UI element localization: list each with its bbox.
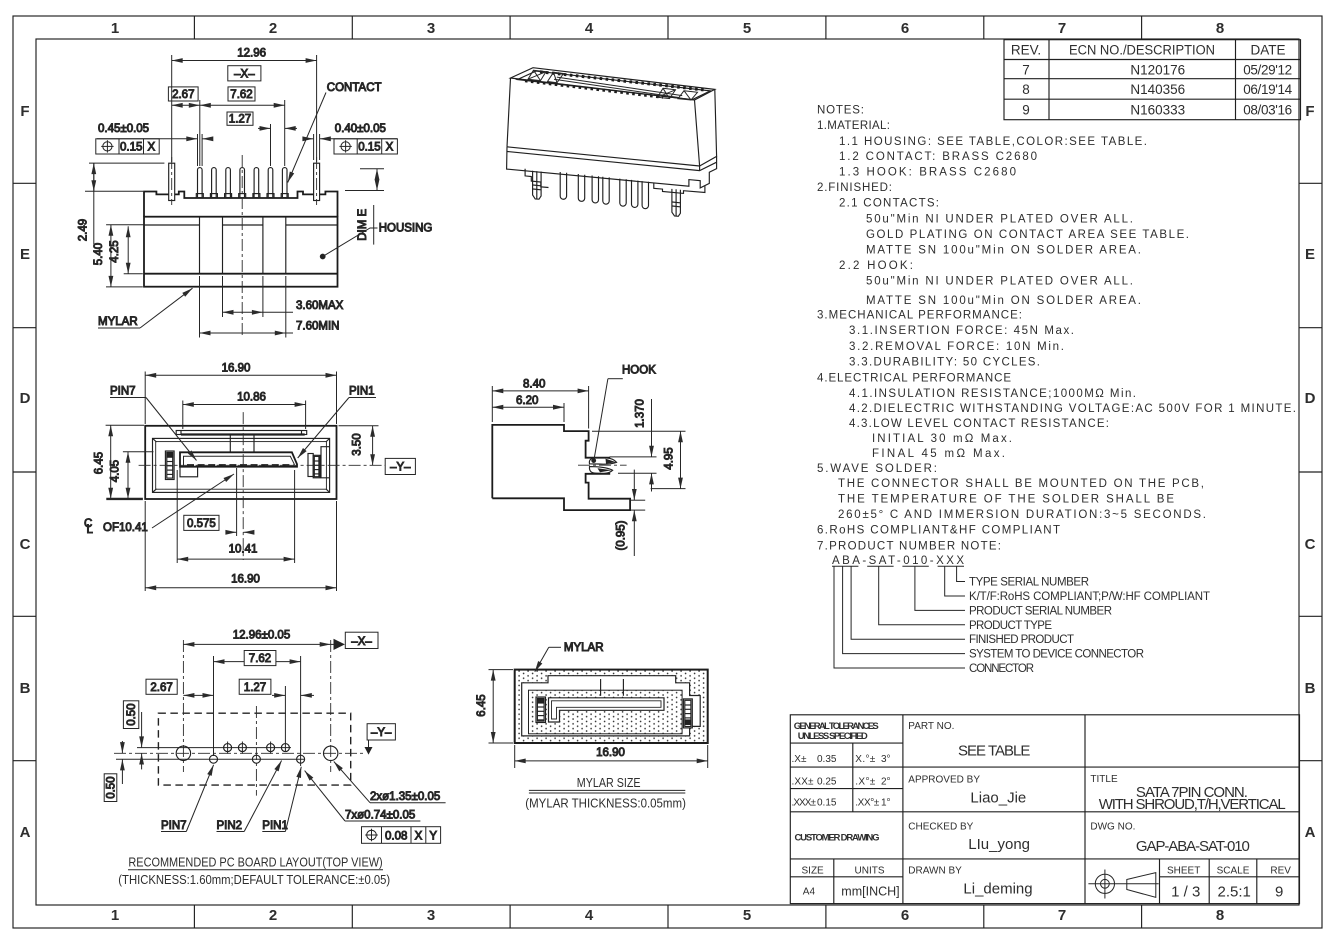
label PIN2 pcb xyxy=(217,761,282,833)
svg-text:3.1.INSERTION FORCE: 45N Ma: 3.1.INSERTION FORCE: 45N Max. xyxy=(849,325,1074,337)
zone letters left xyxy=(20,103,31,841)
iso right square post xyxy=(672,189,681,216)
svg-text:1.27: 1.27 xyxy=(229,114,251,126)
dim (0.95) xyxy=(616,470,646,556)
label 2x dia 1.35 xyxy=(334,762,446,804)
svg-text:5: 5 xyxy=(743,907,751,924)
svg-text:X.°±: X.°± xyxy=(855,754,876,765)
dim 5.40 left xyxy=(93,225,144,287)
svg-text:D: D xyxy=(20,390,31,407)
notes text block xyxy=(817,104,1296,567)
dim 16.90 mylar xyxy=(515,745,708,768)
svg-text:INITIAL 30 mΩ Max.: INITIAL 30 mΩ Max. xyxy=(872,433,1012,445)
svg-text:HOUSING: HOUSING xyxy=(379,223,433,235)
svg-text:8: 8 xyxy=(1216,20,1224,37)
svg-text:THE TEMPERATURE OF THE SOL: THE TEMPERATURE OF THE SOLDER SHALL BE xyxy=(838,494,1174,506)
svg-text:4: 4 xyxy=(585,907,594,924)
svg-text:WITH SHROUD,T/H,VERTICAL: WITH SHROUD,T/H,VERTICAL xyxy=(1099,796,1286,813)
svg-text:–Y–: –Y– xyxy=(371,727,392,739)
svg-text:6.45: 6.45 xyxy=(476,694,488,716)
svg-text:B: B xyxy=(20,680,31,697)
svg-text:4.2.DIELECTRIC WITHSTANDING: 4.2.DIELECTRIC WITHSTANDING VOLTAGE:AC 5… xyxy=(849,403,1296,415)
svg-text:N140356: N140356 xyxy=(1130,82,1185,97)
third angle projection symbol xyxy=(1088,870,1158,899)
iso left square post xyxy=(533,171,542,199)
svg-text:DRAWN BY: DRAWN BY xyxy=(908,866,962,877)
revision table xyxy=(1004,40,1301,120)
svg-text:1.MATERIAL:: 1.MATERIAL: xyxy=(817,120,890,132)
svg-text:16.90: 16.90 xyxy=(231,573,260,585)
zone letters right xyxy=(1305,103,1316,841)
svg-text:06/19'14: 06/19'14 xyxy=(1243,82,1292,97)
dim 7.62 pcb boxed xyxy=(214,651,301,767)
svg-text:2: 2 xyxy=(269,907,277,924)
svg-text:4.95: 4.95 xyxy=(664,447,676,469)
front view inner lines and slots xyxy=(144,217,338,274)
svg-text:12.96: 12.96 xyxy=(237,48,266,60)
dim 7.60MIN xyxy=(200,276,340,338)
label CONTACT with leader xyxy=(288,82,382,183)
svg-text:1: 1 xyxy=(111,20,119,37)
svg-text:4.1.INSULATION RESISTANCE;100: 4.1.INSULATION RESISTANCE;1000MΩ Min. xyxy=(849,388,1136,400)
svg-text:GOLD PLATING ON CONTACT AR: GOLD PLATING ON CONTACT AREA SEE TABLE. xyxy=(866,229,1189,241)
svg-text:D: D xyxy=(1305,390,1316,407)
position tolerance frame 0.08 X Y xyxy=(362,827,441,844)
dim 0.50 lower boxed xyxy=(104,741,122,802)
svg-text:1.3 HOOK: BRASS C2680: 1.3 HOOK: BRASS C2680 xyxy=(839,167,1016,179)
svg-text:4.05: 4.05 xyxy=(109,460,121,482)
pcb pin holes 7x0.74 xyxy=(210,742,305,764)
svg-text:–Y–: –Y– xyxy=(390,462,411,474)
mylar right clip xyxy=(683,699,692,728)
dim 2.67 pcb boxed xyxy=(146,679,214,695)
svg-text:6.45: 6.45 xyxy=(94,452,106,474)
svg-text:16.90: 16.90 xyxy=(222,362,251,374)
dim 3.50 right xyxy=(339,426,379,466)
dim DIM E right xyxy=(345,169,384,245)
dim 4.05 left xyxy=(106,452,153,499)
svg-text:16.90: 16.90 xyxy=(596,747,625,759)
svg-text:0.40±0.05: 0.40±0.05 xyxy=(335,123,386,135)
dim 6.45 left xyxy=(94,425,144,499)
svg-text:C: C xyxy=(1305,536,1316,553)
svg-text:4.3.LOW LEVEL CONTACT RESIS: 4.3.LOW LEVEL CONTACT RESISTANCE: xyxy=(849,418,1109,430)
top view left hold-down clip xyxy=(165,451,174,480)
svg-text:1: 1 xyxy=(111,907,119,924)
svg-text:PART NO.: PART NO. xyxy=(908,721,954,732)
svg-text:1.2 CONTACT: BRASS C2680: 1.2 CONTACT: BRASS C2680 xyxy=(839,151,1037,163)
svg-text:3: 3 xyxy=(427,907,435,924)
svg-text:X: X xyxy=(415,830,423,842)
svg-text:MYLAR: MYLAR xyxy=(564,642,604,654)
svg-text:3.2.REMOVAL FORCE: 10N Min.: 3.2.REMOVAL FORCE: 10N Min. xyxy=(849,341,1064,353)
svg-text:6.20: 6.20 xyxy=(516,395,538,407)
svg-text:5.40: 5.40 xyxy=(93,243,105,265)
svg-text:TITLE: TITLE xyxy=(1090,774,1118,785)
svg-text:2.5:1: 2.5:1 xyxy=(1218,883,1251,900)
front view board-lock posts xyxy=(169,157,320,205)
svg-text:0.50: 0.50 xyxy=(106,776,118,798)
svg-text:MATTE SN 100u"Min ON SOLDE: MATTE SN 100u"Min ON SOLDER AREA. xyxy=(866,244,1141,256)
svg-text:3.MECHANICAL PERFORMANCE:: 3.MECHANICAL PERFORMANCE: xyxy=(817,310,1022,322)
dim 10.41 xyxy=(177,470,294,563)
svg-text:CUSTOMER DRAWING: CUSTOMER DRAWING xyxy=(795,833,880,844)
label 7x dia 0.74 xyxy=(305,771,421,822)
svg-text:6: 6 xyxy=(901,20,909,37)
front view housing outline xyxy=(144,192,338,287)
dim 1.370 xyxy=(610,399,657,492)
svg-text:08/03'16: 08/03'16 xyxy=(1243,103,1292,118)
top view centerlines xyxy=(139,412,386,560)
svg-text:HOOK: HOOK xyxy=(622,365,656,377)
dim 7.62 boxed xyxy=(200,87,285,166)
svg-text:8: 8 xyxy=(1216,907,1224,924)
svg-text:SCALE: SCALE xyxy=(1217,866,1250,877)
svg-text:OF10.41: OF10.41 xyxy=(103,522,148,534)
dim 6.20 xyxy=(492,395,564,422)
svg-text:PRODUCT SERIAL NUMBER: PRODUCT SERIAL NUMBER xyxy=(969,605,1112,617)
label centerline OF10.41 with leader xyxy=(84,474,234,536)
svg-text:APPROVED BY: APPROVED BY xyxy=(908,775,980,786)
svg-text:C: C xyxy=(20,536,31,553)
svg-text:N120176: N120176 xyxy=(1130,63,1185,78)
svg-text:(0.95): (0.95) xyxy=(616,520,628,550)
iso top face xyxy=(511,68,715,100)
dim 8.40 xyxy=(492,379,588,429)
dim 0.50 upper boxed xyxy=(123,701,141,770)
svg-text:X: X xyxy=(147,142,155,154)
mylar tongue xyxy=(549,698,665,722)
label PIN1 pcb xyxy=(262,767,301,832)
dim 6.45 mylar xyxy=(476,670,513,743)
svg-text:REV.: REV. xyxy=(1011,43,1041,58)
label PIN7 pcb xyxy=(161,765,214,832)
svg-text:L: L xyxy=(87,524,94,536)
svg-text:9: 9 xyxy=(1022,103,1030,118)
svg-text:0.35: 0.35 xyxy=(817,754,837,765)
svg-text:7.62: 7.62 xyxy=(230,89,252,101)
svg-text:PIN7: PIN7 xyxy=(110,386,136,398)
svg-text:2xø1.35±0.05: 2xø1.35±0.05 xyxy=(370,791,440,803)
datum -Y- box xyxy=(385,458,415,474)
title block xyxy=(790,715,1299,904)
svg-text:6: 6 xyxy=(901,907,909,924)
svg-text:.X°±: .X°± xyxy=(855,777,876,788)
dim 16.90 top xyxy=(145,362,336,424)
side view profile xyxy=(492,425,630,510)
svg-text:2.49: 2.49 xyxy=(78,219,90,241)
mylar left clip xyxy=(536,697,546,723)
label HOOK with leader xyxy=(594,365,656,459)
dim 2.49 left xyxy=(78,163,165,244)
dim 1.27 pcb boxed xyxy=(239,679,314,752)
svg-text:FINISHED PRODUCT: FINISHED PRODUCT xyxy=(969,634,1074,646)
mylar captions xyxy=(525,776,686,811)
svg-text:3: 3 xyxy=(427,20,435,37)
position tolerance frame right xyxy=(334,139,397,154)
svg-text:FINAL 45 mΩ Max.: FINAL 45 mΩ Max. xyxy=(872,448,1005,460)
svg-text:7.62: 7.62 xyxy=(249,653,271,665)
dim 10.86 xyxy=(183,391,306,429)
svg-text:THE CONNECTOR SHALL BE MOU: THE CONNECTOR SHALL BE MOUNTED ON THE PC… xyxy=(838,478,1204,490)
svg-text:CONNECTOR: CONNECTOR xyxy=(969,663,1034,675)
svg-text:0.15: 0.15 xyxy=(817,797,837,808)
svg-text:SYSTEM TO DEVICE CONNECTOR: SYSTEM TO DEVICE CONNECTOR xyxy=(969,649,1144,661)
svg-text:CHECKED BY: CHECKED BY xyxy=(908,821,973,832)
svg-text:MATTE SN 100u"Min ON SOLDE: MATTE SN 100u"Min ON SOLDER AREA. xyxy=(866,295,1141,307)
svg-text:LIu_yong: LIu_yong xyxy=(968,836,1030,853)
svg-text:RECOMMENDED PC BOARD LAYOUT: RECOMMENDED PC BOARD LAYOUT(TOP VIEW) xyxy=(128,856,382,870)
svg-text:ECN NO./DESCRIPTION: ECN NO./DESCRIPTION xyxy=(1069,43,1215,58)
iso base band xyxy=(507,147,717,188)
svg-text:DATE: DATE xyxy=(1250,43,1285,58)
svg-text:4: 4 xyxy=(585,20,594,37)
svg-text:E: E xyxy=(1305,246,1315,263)
iso cavity end keys xyxy=(528,70,698,100)
svg-text:3.60MAX: 3.60MAX xyxy=(296,300,344,312)
svg-text:ABA-SAT-010-XXX: ABA-SAT-010-XXX xyxy=(832,555,964,567)
svg-text:MYLAR SIZE: MYLAR SIZE xyxy=(577,776,641,790)
pcb layout captions xyxy=(118,856,390,887)
iso front face xyxy=(507,78,700,166)
iso left foot xyxy=(525,169,548,188)
svg-text:K/T/F:RoHS COMPLIANT;P/W:HF: K/T/F:RoHS COMPLIANT;P/W:HF COMPLIANT xyxy=(969,591,1210,603)
dim 0.45 pin width xyxy=(97,123,213,166)
svg-text:.XX°±: .XX°± xyxy=(855,797,880,808)
svg-text:PIN7: PIN7 xyxy=(161,820,187,832)
label HOUSING with leader xyxy=(320,223,432,259)
iso right foot xyxy=(654,183,705,194)
hook xyxy=(578,458,627,474)
svg-text:2.FINISHED:: 2.FINISHED: xyxy=(817,182,892,194)
svg-text:PIN2: PIN2 xyxy=(217,820,243,832)
svg-text:8.40: 8.40 xyxy=(523,379,545,391)
datum -X- box xyxy=(228,66,261,81)
svg-text:A4: A4 xyxy=(803,886,816,897)
svg-text:10.86: 10.86 xyxy=(237,391,266,403)
svg-text:9: 9 xyxy=(1275,883,1283,900)
mylar connector cutout outline xyxy=(522,676,701,736)
top view tongue xyxy=(180,452,297,477)
label MYLAR with leader xyxy=(98,288,193,328)
top view outer body xyxy=(145,426,336,499)
svg-text:3.3.DURABILITY: 50 CYCLES.: 3.3.DURABILITY: 50 CYCLES. xyxy=(849,357,1040,369)
svg-text:.X±: .X± xyxy=(792,754,807,765)
svg-text:2°: 2° xyxy=(881,777,891,788)
label PIN7 with leader xyxy=(110,386,197,461)
svg-text:REV: REV xyxy=(1270,866,1291,877)
svg-text:50u"Min NI UNDER PLATED OV: 50u"Min NI UNDER PLATED OVER ALL. xyxy=(866,276,1133,288)
iso cavity tongue strip with contacts xyxy=(525,72,707,98)
label PIN1 with leader xyxy=(298,386,376,459)
svg-text:7: 7 xyxy=(1058,20,1066,37)
svg-text:4.ELECTRICAL PERFORMANCE: 4.ELECTRICAL PERFORMANCE xyxy=(817,373,1011,385)
svg-text:DWG NO.: DWG NO. xyxy=(1090,821,1135,832)
svg-text:05/29'12: 05/29'12 xyxy=(1243,63,1292,78)
svg-text:UNITS: UNITS xyxy=(855,866,885,877)
svg-text:7: 7 xyxy=(1022,63,1030,78)
front view centerline xyxy=(241,155,243,336)
svg-text:MYLAR: MYLAR xyxy=(98,316,138,328)
svg-text:NOTES:: NOTES: xyxy=(817,104,864,116)
svg-text:mm[INCH]: mm[INCH] xyxy=(841,884,899,898)
svg-text:0.575: 0.575 xyxy=(187,518,216,530)
datum -Y- pcb xyxy=(365,724,396,755)
svg-text:F: F xyxy=(1305,103,1314,120)
svg-text:A: A xyxy=(1305,824,1316,841)
svg-text:.XXX±: .XXX± xyxy=(792,797,817,808)
svg-text:CONTACT: CONTACT xyxy=(327,82,382,94)
dim 4.25 left xyxy=(109,226,143,273)
svg-text:1 / 3: 1 / 3 xyxy=(1171,883,1200,900)
zone numbers bottom xyxy=(111,907,1224,924)
svg-text:–X–: –X– xyxy=(351,636,372,648)
svg-text:(MYLAR THICKNESS:0.05mm): (MYLAR THICKNESS:0.05mm) xyxy=(525,797,686,811)
svg-text:GAP-ABA-SAT-010: GAP-ABA-SAT-010 xyxy=(1136,838,1250,855)
svg-text:0.25: 0.25 xyxy=(817,777,837,788)
svg-text:5: 5 xyxy=(743,20,751,37)
svg-text:260±5° C AND IMMERSION DUR: 260±5° C AND IMMERSION DURATION:3~5 SECO… xyxy=(838,509,1206,521)
svg-text:6.RoHS COMPLIANT&HF COMPLIAN: 6.RoHS COMPLIANT&HF COMPLIANT xyxy=(817,525,1060,537)
svg-text:4.25: 4.25 xyxy=(109,240,121,262)
dim 3.60MAX xyxy=(223,276,344,317)
svg-text:PRODUCT TYPE: PRODUCT TYPE xyxy=(969,620,1052,632)
svg-text:8: 8 xyxy=(1022,82,1030,97)
svg-text:0.15: 0.15 xyxy=(120,142,142,154)
pcb outline dashed xyxy=(158,713,350,785)
pcb mounting holes 2x1.35 xyxy=(176,746,338,760)
svg-text:Liao_Jie: Liao_Jie xyxy=(970,789,1026,806)
svg-text:1.27: 1.27 xyxy=(244,682,266,694)
svg-text:PIN1: PIN1 xyxy=(262,820,288,832)
pcb centerlines xyxy=(114,640,366,796)
svg-text:SEE TABLE: SEE TABLE xyxy=(958,743,1030,760)
svg-text:SHEET: SHEET xyxy=(1167,866,1200,877)
svg-text:5.WAVE SOLDER:: 5.WAVE SOLDER: xyxy=(817,463,937,475)
svg-text:E: E xyxy=(20,246,30,263)
position tolerance frame left xyxy=(96,139,159,154)
svg-text:12.96±0.05: 12.96±0.05 xyxy=(233,629,290,641)
iso right face xyxy=(700,89,717,166)
top view right hold-down clip xyxy=(308,454,320,478)
svg-text:7: 7 xyxy=(1058,907,1066,924)
svg-text:X: X xyxy=(386,142,394,154)
svg-text:F: F xyxy=(20,103,29,120)
svg-text:0.15: 0.15 xyxy=(358,142,380,154)
svg-text:2.67: 2.67 xyxy=(172,89,194,101)
svg-text:N160333: N160333 xyxy=(1130,103,1185,118)
iso round pins xyxy=(560,172,648,209)
svg-text:Y: Y xyxy=(429,830,437,842)
dim 0.575 boxed xyxy=(184,468,252,536)
svg-text:7.PRODUCT NUMBER NOTE:: 7.PRODUCT NUMBER NOTE: xyxy=(817,540,1001,552)
svg-text:(THICKNESS:1.60mm;DEFAULT TOL: (THICKNESS:1.60mm;DEFAULT TOLERANCE:±0.0… xyxy=(118,873,390,887)
dim 12.96 top xyxy=(172,48,317,163)
dim 1.27 boxed xyxy=(227,112,297,166)
svg-text:0.45±0.05: 0.45±0.05 xyxy=(98,123,149,135)
svg-text:10.41: 10.41 xyxy=(229,544,258,556)
svg-text:.XX±: .XX± xyxy=(792,777,815,788)
svg-text:PIN1: PIN1 xyxy=(349,386,375,398)
svg-text:0.50: 0.50 xyxy=(126,703,138,725)
svg-text:1.370: 1.370 xyxy=(635,399,647,428)
svg-text:2.1 CONTACTS:: 2.1 CONTACTS: xyxy=(839,198,939,210)
zone numbers top xyxy=(111,20,1224,37)
svg-text:A: A xyxy=(20,824,31,841)
svg-text:3°: 3° xyxy=(881,754,891,765)
svg-text:Li_deming: Li_deming xyxy=(963,881,1032,898)
svg-text:3.50: 3.50 xyxy=(352,433,364,455)
svg-text:B: B xyxy=(1305,680,1316,697)
product number breakdown tree xyxy=(832,566,1210,675)
top view rear wall bar xyxy=(176,431,307,453)
svg-text:2: 2 xyxy=(269,20,277,37)
svg-text:TYPE SERIAL NUMBER: TYPE SERIAL NUMBER xyxy=(969,577,1089,589)
svg-text:50u"Min NI UNDER PLATED OV: 50u"Min NI UNDER PLATED OVER ALL. xyxy=(866,213,1133,225)
svg-text:UNLESS SPECIFIED: UNLESS SPECIFIED xyxy=(798,731,868,742)
dim 4.95 xyxy=(592,431,686,488)
dim 16.90 bottom xyxy=(145,501,336,591)
svg-text:2.67: 2.67 xyxy=(150,682,172,694)
svg-text:0.08: 0.08 xyxy=(385,830,407,842)
svg-text:DIM E: DIM E xyxy=(357,209,369,241)
svg-text:7.60MIN: 7.60MIN xyxy=(296,321,339,333)
svg-text:7xø0.74±0.05: 7xø0.74±0.05 xyxy=(345,810,415,822)
dim 12.96 pcb with datum -X- xyxy=(183,629,378,650)
pcb row reference lines xyxy=(116,748,305,760)
top view inner wall xyxy=(153,438,330,492)
front view contact pins xyxy=(196,168,288,198)
svg-text:–X–: –X– xyxy=(234,69,255,81)
svg-text:1.1 HOUSING: SEE TABLE,COLO: 1.1 HOUSING: SEE TABLE,COLOR:SEE TABLE. xyxy=(839,136,1147,148)
dim 2.67 boxed xyxy=(168,87,199,105)
label MYLAR with leader xyxy=(535,642,604,672)
svg-text:2.2 HOOK:: 2.2 HOOK: xyxy=(839,260,913,272)
svg-text:SIZE: SIZE xyxy=(802,866,825,877)
mylar outer sheet xyxy=(515,670,708,743)
dim 0.40 post width xyxy=(303,123,397,160)
svg-text:1°: 1° xyxy=(881,797,891,808)
